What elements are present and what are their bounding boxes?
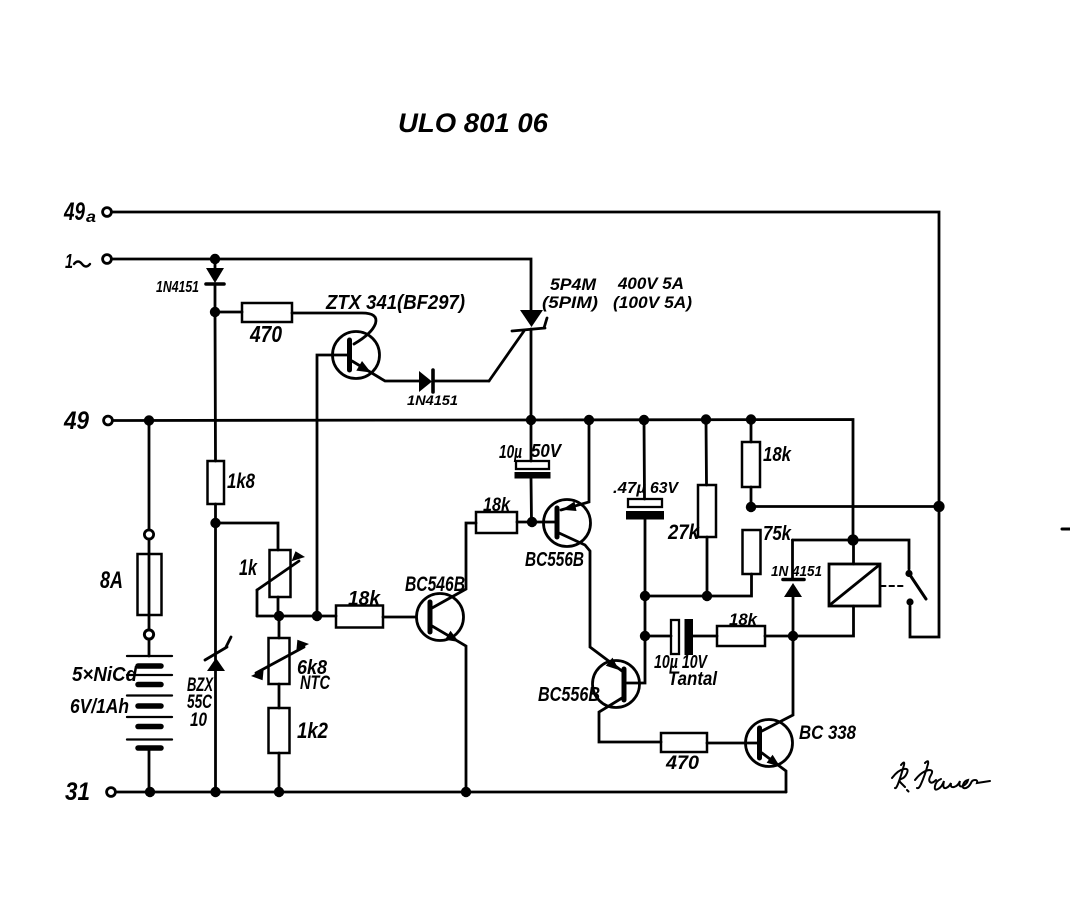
- svg-text:49: 49: [63, 198, 85, 226]
- node dot 49/fuse: [144, 415, 154, 425]
- svg-text:1k2: 1k2: [297, 718, 329, 743]
- edge artifact mark: [1062, 528, 1070, 531]
- terminal 31: [107, 788, 116, 797]
- terminal 49a: [103, 208, 112, 217]
- wire net 1~ rail to thyristor anode: [112, 259, 532, 310]
- wire net 49a top rail to right side and down to switch: [112, 212, 940, 637]
- wire junction line pot bottom / Q1 base / 18k: [257, 615, 336, 618]
- svg-text:5P4M: 5P4M: [550, 275, 597, 294]
- svg-text:75k: 75k: [763, 523, 792, 545]
- node junction D1/470/1k8: [210, 307, 220, 317]
- terminal 49: [104, 416, 113, 425]
- wire node down to tantal junction: [644, 596, 647, 636]
- node dot thyristor/C1: [526, 415, 536, 425]
- wire relay top node line: [793, 540, 910, 569]
- node dot right rail: [933, 501, 944, 512]
- node dot 18k/75k junction: [746, 502, 756, 512]
- svg-text:18k: 18k: [729, 610, 759, 629]
- Q4 emitter with arrow down to bus 31: [432, 626, 466, 792]
- svg-text:18k: 18k: [763, 444, 792, 466]
- Q2 emitter (top, arrow toward base) from bus 49: [561, 420, 589, 510]
- wire 75k bottom to node line: [645, 574, 752, 596]
- Q1 emitter with arrow to diode D2: [352, 361, 419, 381]
- svg-text:BC546B: BC546B: [405, 573, 465, 596]
- svg-text:(5PIM): (5PIM): [542, 293, 598, 312]
- Q5 emitter with arrow down to bus 31: [762, 753, 786, 792]
- resistor 75k: [743, 530, 761, 574]
- svg-text:31: 31: [65, 778, 90, 806]
- node dot zener bottom: [210, 787, 220, 797]
- node dot C2 bottom: [640, 591, 650, 601]
- wire D2 to thyristor gate: [489, 331, 524, 381]
- svg-text:6V/1Ah: 6V/1Ah: [70, 696, 129, 718]
- resistor 1k2: [278, 684, 281, 708]
- fuse F1 8A: [148, 420, 151, 530]
- node junction 1~/D1: [210, 254, 220, 264]
- Q1 base wire down to pot junction: [317, 355, 347, 616]
- node dot diode/relay/Q5 collector: [788, 631, 798, 641]
- diode D2 1N4151 (horizontal): [419, 371, 432, 392]
- Q3 collector down-left to 470: [599, 698, 661, 742]
- node dot relay top: [847, 534, 858, 545]
- resistor 18k (to relay node): [717, 626, 765, 646]
- svg-text:.47µ: .47µ: [613, 480, 646, 497]
- svg-text:18k: 18k: [348, 588, 381, 610]
- svg-text:10: 10: [190, 710, 207, 731]
- resistor 1k8: [214, 312, 217, 461]
- svg-text:470: 470: [249, 321, 282, 347]
- capacitor C3 10u 10V Tantal: [645, 635, 671, 638]
- svg-text:1k8: 1k8: [227, 470, 255, 493]
- node dot 27k top: [701, 414, 711, 424]
- svg-text:(100V 5A): (100V 5A): [613, 293, 692, 312]
- capacitor C1 10u 50V: [530, 420, 533, 461]
- node dot 1k8/zener/pot feed: [210, 518, 220, 528]
- svg-text:NTC: NTC: [300, 673, 330, 694]
- thyristor V1 5P4M: [520, 310, 543, 327]
- svg-text:1N4151: 1N4151: [156, 279, 199, 296]
- Q2 collector down to Q3 emitter: [559, 533, 622, 671]
- resistor 18k (right column): [750, 420, 753, 442]
- svg-text:470: 470: [665, 753, 699, 774]
- svg-text:1k: 1k: [239, 555, 258, 580]
- svg-text:ZTX 341(BF297): ZTX 341(BF297): [325, 292, 465, 314]
- svg-text:400V 5A: 400V 5A: [617, 274, 684, 293]
- svg-text:10µ: 10µ: [499, 442, 522, 462]
- svg-text:BC556B: BC556B: [538, 684, 600, 706]
- diode D1 1N4151 (vertical, cathode down): [214, 259, 217, 269]
- node dot C2 top: [639, 415, 649, 425]
- resistor 470 (base of Q5): [661, 733, 707, 752]
- relay contact dashed link: [881, 585, 904, 587]
- svg-text:63V: 63V: [650, 480, 679, 497]
- svg-text:49: 49: [63, 407, 89, 435]
- svg-text:BC 338: BC 338: [799, 723, 856, 744]
- wire bus 49: [113, 420, 854, 541]
- switch lever: [910, 575, 926, 599]
- wire 1k8 node to pot top: [216, 523, 279, 550]
- transistor Q2 BC556B (upper): [544, 500, 591, 547]
- Q5 collector up to relay node: [762, 636, 793, 731]
- signature R. Hauser: [892, 761, 990, 791]
- svg-text:8A: 8A: [100, 567, 123, 594]
- wire 470 to Q1 collector (hook): [292, 313, 376, 344]
- svg-text:50V: 50V: [531, 441, 563, 461]
- node dot 18k top: [746, 414, 756, 424]
- wire junction to 49a drop: [751, 505, 939, 508]
- resistor 27k: [705, 420, 708, 485]
- svg-text:18k: 18k: [483, 495, 511, 516]
- thermistor 6k8 NTC: [278, 616, 281, 638]
- resistor 18k (base of Q2 BC556B): [476, 512, 517, 533]
- node dot battery bottom: [145, 787, 155, 797]
- diode D3 1N4151 (relay clamp): [791, 540, 794, 578]
- wire down and left to Q3 base: [627, 636, 645, 683]
- relay K1 coil: [852, 540, 855, 564]
- node dot Q4 emitter: [461, 787, 471, 797]
- resistor 470: [242, 303, 292, 322]
- potentiometer 1k: [270, 550, 291, 597]
- Q4 collector up to 18k: [432, 523, 476, 608]
- svg-text:BC556B: BC556B: [525, 549, 584, 571]
- wire node to resistor 470: [215, 311, 242, 314]
- svg-text:a: a: [86, 209, 96, 226]
- svg-text:ULO 801 06: ULO 801 06: [398, 108, 549, 138]
- terminal 1~: [103, 255, 112, 264]
- wire bus 31: [116, 791, 787, 794]
- node dot Q2 emitter: [584, 415, 594, 425]
- node dot Q2 base: [527, 517, 537, 527]
- node dot 27k bottom: [702, 591, 712, 601]
- svg-text:5×NiCd: 5×NiCd: [72, 664, 138, 686]
- svg-text:1: 1: [65, 251, 73, 273]
- svg-text:27k: 27k: [667, 521, 700, 544]
- svg-text:1N 4151: 1N 4151: [771, 563, 822, 580]
- resistor 18k (base of Q4 BC546B): [336, 606, 383, 628]
- relay switch contacts: [905, 570, 912, 577]
- node dot tantal/base: [640, 631, 650, 641]
- capacitor C2 .47u 63V: [643, 420, 646, 499]
- zener diode BZX55C10: [214, 523, 217, 660]
- svg-text:Tantal: Tantal: [668, 669, 718, 690]
- node dot 1k2 bottom: [274, 787, 284, 797]
- battery 5xNiCd 6V/1Ah: [148, 639, 151, 656]
- svg-text:1N4151: 1N4151: [407, 392, 458, 408]
- transistor Q3 BC556B (lower): [593, 661, 640, 708]
